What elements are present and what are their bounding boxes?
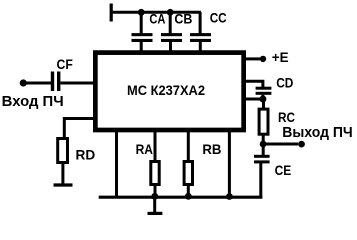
svg-text:CE: CE <box>275 163 292 178</box>
svg-text:RB: RB <box>202 142 221 157</box>
svg-text:+E: +E <box>272 49 289 65</box>
svg-text:Выход ПЧ: Выход ПЧ <box>282 125 352 141</box>
svg-text:CC: CC <box>210 11 227 26</box>
svg-text:RC: RC <box>278 110 295 125</box>
svg-text:CB: CB <box>174 12 192 27</box>
svg-text:Вход ПЧ: Вход ПЧ <box>2 94 64 110</box>
svg-text:CA: CA <box>149 11 165 26</box>
svg-text:RA: RA <box>136 142 153 157</box>
svg-text:CF: CF <box>57 57 73 72</box>
svg-text:RD: RD <box>76 148 96 163</box>
svg-text:МС К237ХА2: МС К237ХА2 <box>127 82 205 98</box>
svg-text:CD: CD <box>276 76 293 91</box>
